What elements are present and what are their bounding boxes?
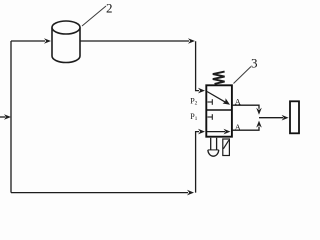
leader line label 3 bbox=[234, 67, 252, 84]
arrowhead into valve P2 port bbox=[198, 88, 205, 94]
actuator box right bbox=[290, 101, 299, 133]
leader line label 2 bbox=[82, 6, 106, 26]
arrowhead top-right corner bbox=[188, 38, 195, 44]
bottom horizontal wire bbox=[11, 192, 188, 194]
exhaust silencer port bbox=[223, 139, 230, 156]
wire A-bottom to junction bbox=[232, 127, 259, 131]
valve divider bbox=[206, 109, 232, 111]
arrowhead into left vertical bbox=[4, 114, 11, 120]
svg-text:3: 3 bbox=[251, 56, 258, 71]
left vertical wire bbox=[10, 41, 12, 193]
wire junction to actuator bbox=[259, 117, 283, 119]
arrowhead into tank bbox=[44, 38, 51, 44]
wire A-top to junction bbox=[232, 105, 259, 109]
valve 3 body bbox=[206, 85, 232, 136]
wire tank to valve corner bbox=[81, 40, 190, 42]
arrowhead bottom-right corner bbox=[187, 190, 194, 196]
pilot symbol top cell bbox=[208, 99, 213, 105]
spring on valve top bbox=[213, 72, 225, 84]
tank 2 (cylinder) bbox=[52, 21, 80, 63]
svg-text:2: 2 bbox=[106, 1, 113, 16]
wire inlet arrow left bbox=[0, 116, 6, 118]
valve bottom cell straight flow path bbox=[207, 131, 225, 133]
wire vertical down to valve P2 inlet bbox=[196, 41, 199, 90]
wire to tank bbox=[11, 40, 45, 42]
exhaust muffler port bbox=[208, 138, 219, 156]
valve top cell diagonal flow path bbox=[207, 92, 227, 103]
pilot symbol bottom cell bbox=[208, 114, 213, 120]
wire vertical up to valve P1 inlet bbox=[196, 132, 199, 193]
arrowhead into valve P1 port bbox=[198, 129, 205, 135]
